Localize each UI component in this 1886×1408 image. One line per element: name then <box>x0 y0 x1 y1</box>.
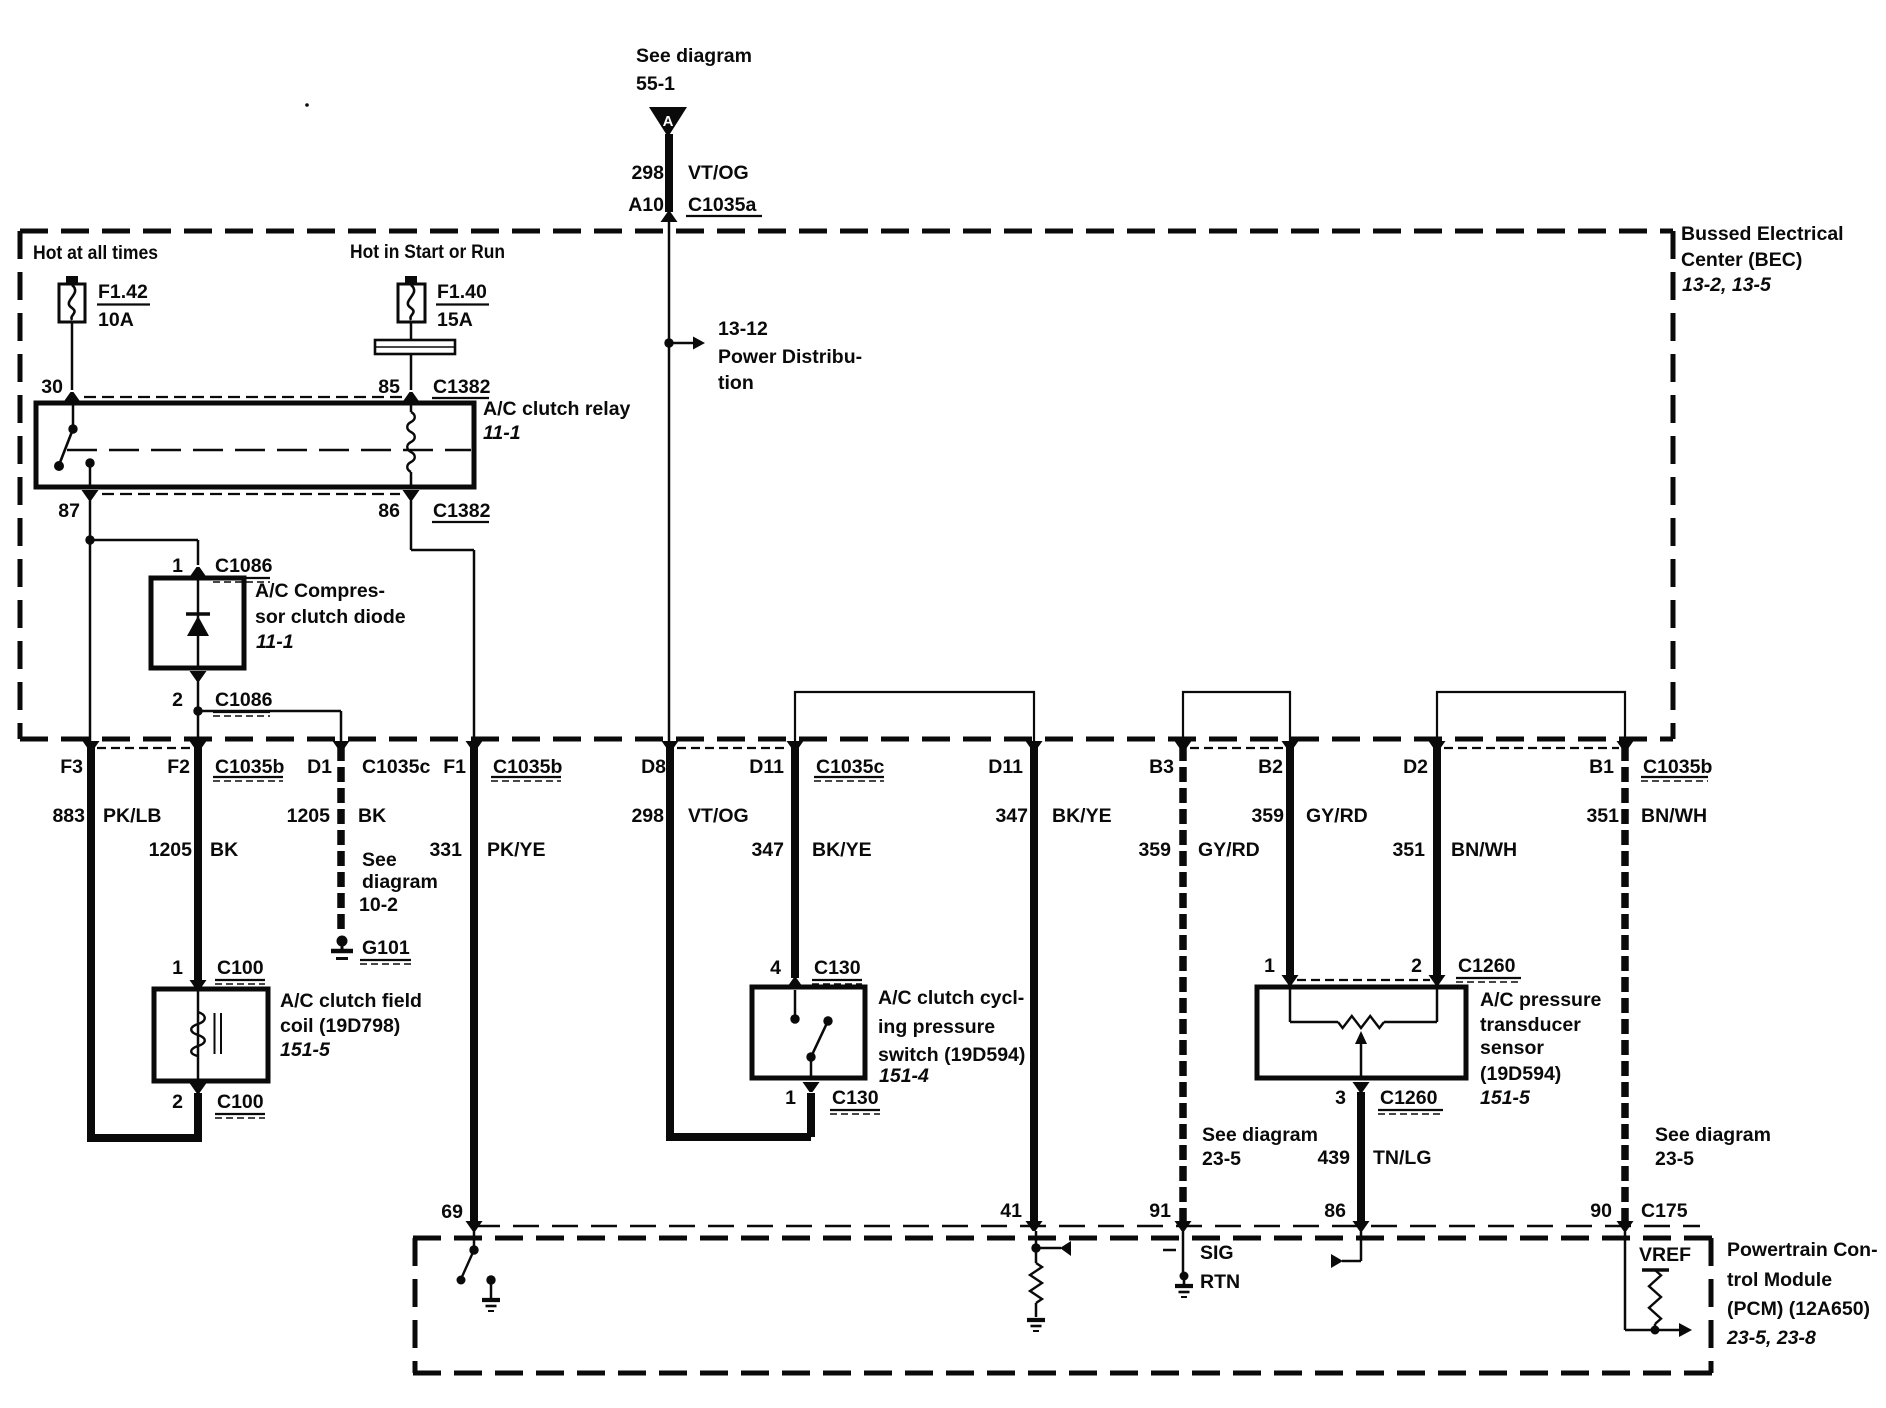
svg-text:10-2: 10-2 <box>359 894 398 916</box>
connector line C175 (thin dashed) <box>474 1225 1700 1227</box>
transducer wiper arrow <box>1360 1044 1363 1078</box>
svg-text:Powertrain Con-: Powertrain Con- <box>1727 1239 1878 1261</box>
svg-text:85: 85 <box>378 376 400 398</box>
Powertrain Control Module dashed box <box>413 1236 1712 1241</box>
relay internal divider (dashed) <box>67 449 471 451</box>
svg-text:439: 439 <box>1317 1147 1350 1169</box>
svg-text:F1: F1 <box>443 756 466 778</box>
svg-text:1: 1 <box>172 555 183 577</box>
print speck <box>305 103 309 107</box>
svg-text:Hot in Start or Run: Hot in Start or Run <box>350 241 505 263</box>
bus bar symbol <box>375 340 455 354</box>
wire pin3 439 TN/LG (thick) to PCM 86 <box>1357 1092 1365 1222</box>
svg-text:BK/YE: BK/YE <box>812 839 872 861</box>
fuse F1.42 10A <box>66 276 78 284</box>
svg-text:trol Module: trol Module <box>1727 1269 1832 1291</box>
connector line D8-D11 <box>677 747 789 749</box>
diode symbol <box>197 578 200 668</box>
svg-text:F1.40: F1.40 <box>437 281 487 303</box>
wire F3 883 PK/LB (thick) <box>87 746 95 1138</box>
svg-text:351: 351 <box>1392 839 1425 861</box>
transducer pin 3 connector <box>1353 1082 1370 1092</box>
switch contact pin4 <box>794 990 797 1015</box>
svg-text:15A: 15A <box>437 309 473 331</box>
PCM pin arrows <box>466 1221 483 1231</box>
relay switch arm <box>59 429 73 465</box>
wire D2 351 BN/WH (thick) <box>1433 746 1441 976</box>
svg-text:87: 87 <box>58 500 80 522</box>
PCM pull resistor at 41 <box>1035 1248 1038 1263</box>
wire coil pin2 down (thick) <box>194 1093 202 1142</box>
svg-text:4: 4 <box>770 957 781 979</box>
ground G101 <box>337 936 348 947</box>
svg-text:2: 2 <box>172 1091 183 1113</box>
svg-text:C1035c: C1035c <box>816 756 884 778</box>
svg-text:13-12: 13-12 <box>718 318 768 340</box>
svg-text:C130: C130 <box>814 957 861 979</box>
wire F2 1205 BK (thick) <box>194 746 202 981</box>
svg-text:diagram: diagram <box>362 871 438 893</box>
svg-text:See diagram: See diagram <box>636 45 752 67</box>
BEC pin exit arrows <box>83 741 100 751</box>
loop B3-B2 <box>1183 692 1290 742</box>
svg-text:1: 1 <box>1264 955 1275 977</box>
switch pin 1 connector <box>803 1082 820 1092</box>
svg-text:GY/RD: GY/RD <box>1198 839 1260 861</box>
relay coil <box>410 403 413 412</box>
svg-text:C100: C100 <box>217 1091 264 1113</box>
switch pin 4 connector <box>787 978 804 988</box>
svg-text:A/C clutch field: A/C clutch field <box>280 990 422 1012</box>
junction node diode branch <box>85 535 94 544</box>
coil pin 2 connector <box>190 1083 207 1093</box>
svg-text:C1382: C1382 <box>433 376 491 398</box>
svg-text:69: 69 <box>441 1201 463 1223</box>
svg-text:A10: A10 <box>628 194 664 216</box>
svg-text:BK: BK <box>358 805 386 827</box>
svg-text:sensor: sensor <box>1480 1037 1544 1059</box>
relay pin 86 exit <box>403 490 420 500</box>
svg-text:C175: C175 <box>1641 1200 1688 1222</box>
A/C compressor clutch diode box <box>151 578 244 668</box>
svg-text:C100: C100 <box>217 957 264 979</box>
svg-text:11-1: 11-1 <box>483 422 521 444</box>
wire diode pin2 to junction <box>197 681 200 742</box>
transducer potentiometer <box>1289 987 1292 1022</box>
svg-text:See diagram: See diagram <box>1655 1124 1771 1146</box>
PCM pin 86 internal input <box>1360 1231 1363 1261</box>
svg-text:2: 2 <box>1411 955 1422 977</box>
wire D8 298 VT/OG (thick) <box>666 746 674 1137</box>
svg-text:C1035b: C1035b <box>1643 756 1712 778</box>
svg-text:151-5: 151-5 <box>1480 1087 1531 1109</box>
svg-text:Bussed Electrical: Bussed Electrical <box>1681 223 1844 245</box>
svg-text:D11: D11 <box>988 756 1023 778</box>
svg-text:91: 91 <box>1149 1200 1171 1222</box>
svg-text:BK: BK <box>210 839 238 861</box>
svg-text:55-1: 55-1 <box>636 73 675 95</box>
svg-text:D2: D2 <box>1403 756 1428 778</box>
wire bus bar to relay pin 85 <box>410 354 413 390</box>
svg-text:331: 331 <box>429 839 462 861</box>
svg-text:coil (19D798): coil (19D798) <box>280 1015 400 1037</box>
svg-text:TN/LG: TN/LG <box>1373 1147 1432 1169</box>
off-page connector triangle A <box>649 107 687 137</box>
svg-text:(19D594): (19D594) <box>1480 1063 1561 1085</box>
svg-text:Center (BEC): Center (BEC) <box>1681 249 1802 271</box>
switch contact to pin 1 <box>810 1057 813 1078</box>
svg-text:C1260: C1260 <box>1380 1087 1438 1109</box>
svg-text:11-1: 11-1 <box>256 631 294 653</box>
svg-text:PK/LB: PK/LB <box>103 805 162 827</box>
wire 298 inside BEC (thin) <box>668 221 671 742</box>
svg-text:86: 86 <box>378 500 400 522</box>
svg-text:298: 298 <box>631 162 664 184</box>
relay connector dashed line (bottom) <box>102 493 400 495</box>
svg-text:C1086: C1086 <box>215 689 273 711</box>
A/C clutch relay box <box>36 403 474 487</box>
svg-text:C130: C130 <box>832 1087 879 1109</box>
svg-text:D8: D8 <box>641 756 666 778</box>
wire from relay 87 down <box>89 500 92 742</box>
svg-text:23-5: 23-5 <box>1202 1148 1241 1170</box>
svg-text:B3: B3 <box>1149 756 1174 778</box>
svg-text:See diagram: See diagram <box>1202 1124 1318 1146</box>
svg-text:A/C clutch relay: A/C clutch relay <box>483 398 631 420</box>
svg-text:41: 41 <box>1000 1200 1022 1222</box>
PCM pin 41 internal input <box>1035 1231 1038 1248</box>
svg-text:F3: F3 <box>60 756 83 778</box>
wire B2 359 GY/RD (thick) <box>1286 746 1294 976</box>
svg-text:A: A <box>663 113 674 130</box>
loop D11-D11 <box>795 692 1034 742</box>
svg-text:transducer: transducer <box>1480 1014 1581 1036</box>
svg-text:C1035c: C1035c <box>362 756 430 778</box>
PCM internal ground contact at 69 <box>486 1275 495 1284</box>
svg-text:347: 347 <box>751 839 784 861</box>
svg-text:10A: 10A <box>98 309 134 331</box>
svg-text:ing pressure: ing pressure <box>878 1016 995 1038</box>
wire B3 359 GY/RD (thick dashed) to PCM 91 <box>1179 746 1187 1222</box>
svg-text:C1035b: C1035b <box>493 756 562 778</box>
switch movable arm <box>806 1052 815 1061</box>
PCM pin 90 wire to VREF node <box>1624 1231 1627 1330</box>
relay switch contact 30 <box>72 403 75 429</box>
svg-text:See: See <box>362 849 397 871</box>
svg-text:1: 1 <box>785 1087 796 1109</box>
connector arrow into C1035a (up) <box>661 212 678 222</box>
diode pin 2 exit <box>190 671 207 681</box>
svg-text:switch (19D594): switch (19D594) <box>878 1044 1025 1066</box>
svg-text:3: 3 <box>1335 1087 1346 1109</box>
connector line D2-B1 <box>1444 747 1619 749</box>
svg-text:A/C pressure: A/C pressure <box>1480 989 1602 1011</box>
svg-text:VREF: VREF <box>1639 1244 1691 1266</box>
svg-text:C1260: C1260 <box>1458 955 1516 977</box>
svg-text:RTN: RTN <box>1200 1271 1240 1293</box>
svg-text:C1382: C1382 <box>433 500 491 522</box>
svg-text:BN/WH: BN/WH <box>1641 805 1707 827</box>
fuse F1.40 15A <box>405 276 417 284</box>
svg-text:90: 90 <box>1590 1200 1612 1222</box>
wire F1 331 PK/YE (thick) to PCM <box>470 746 478 1222</box>
svg-text:BK/YE: BK/YE <box>1052 805 1112 827</box>
svg-text:BN/WH: BN/WH <box>1451 839 1517 861</box>
wire D11 347 BK/YE (thick) to PCM 41 <box>1030 746 1038 1222</box>
coil pin 1 connector <box>190 980 207 990</box>
svg-text:86: 86 <box>1324 1200 1346 1222</box>
relay connector dashed line (top) <box>84 396 404 398</box>
PCM pin 91 SIG RTN ground <box>1163 1249 1176 1252</box>
svg-text:883: 883 <box>52 805 85 827</box>
svg-text:Hot at all times: Hot at all times <box>33 242 158 264</box>
relay pin 87 exit <box>82 490 99 500</box>
A/C clutch field coil box <box>154 989 268 1081</box>
svg-text:A/C Compres-: A/C Compres- <box>255 580 385 602</box>
svg-text:(PCM) (12A650): (PCM) (12A650) <box>1727 1298 1870 1320</box>
svg-text:VT/OG: VT/OG <box>688 805 749 827</box>
svg-text:GY/RD: GY/RD <box>1306 805 1368 827</box>
svg-text:SIG: SIG <box>1200 1242 1234 1264</box>
svg-text:1: 1 <box>172 957 183 979</box>
wire 298 VT/OG from triangle A (thick) <box>665 134 673 212</box>
wire junction to D1 <box>198 710 341 713</box>
svg-text:151-4: 151-4 <box>879 1065 929 1087</box>
Bussed Electrical Center (BEC) dashed box <box>20 229 1673 234</box>
wire D11 347 BK/YE (thick) to switch <box>791 746 799 978</box>
svg-text:F1.42: F1.42 <box>98 281 148 303</box>
svg-text:351: 351 <box>1586 805 1619 827</box>
relay switch contact 87 <box>85 458 94 467</box>
svg-text:G101: G101 <box>362 937 410 959</box>
svg-text:A/C clutch cycl-: A/C clutch cycl- <box>878 987 1024 1009</box>
svg-text:VT/OG: VT/OG <box>688 162 749 184</box>
wire fuse F1.42 to relay pin 30 <box>71 322 74 390</box>
wire fuse F1.40 down <box>410 322 413 339</box>
svg-text:23-5, 23-8: 23-5, 23-8 <box>1726 1327 1816 1349</box>
svg-text:23-5: 23-5 <box>1655 1148 1694 1170</box>
svg-text:D1: D1 <box>307 756 332 778</box>
PCM ground at 41 <box>1027 1318 1045 1322</box>
svg-text:151-5: 151-5 <box>280 1039 331 1061</box>
svg-text:sor clutch diode: sor clutch diode <box>255 606 406 628</box>
svg-text:tion: tion <box>718 372 754 394</box>
svg-text:359: 359 <box>1251 805 1284 827</box>
connector line F3-F2 <box>97 747 192 749</box>
field coil winding <box>197 989 200 1081</box>
svg-text:C1035b: C1035b <box>215 756 284 778</box>
wire relay 86 to pin F1 <box>410 500 413 550</box>
svg-text:2: 2 <box>172 689 183 711</box>
A/C clutch cycling pressure switch box <box>752 987 865 1078</box>
svg-text:347: 347 <box>995 805 1028 827</box>
svg-text:B2: B2 <box>1258 756 1283 778</box>
connector line C1260 <box>1297 979 1430 981</box>
connector line B3-B2 <box>1190 747 1284 749</box>
svg-text:D11: D11 <box>749 756 784 778</box>
loop D2-B1 <box>1437 692 1625 742</box>
PCM pin 69 internal switch <box>473 1231 476 1250</box>
svg-text:C1086: C1086 <box>215 555 273 577</box>
svg-text:PK/YE: PK/YE <box>487 839 546 861</box>
junction node to power distribution <box>664 338 673 347</box>
svg-text:359: 359 <box>1138 839 1171 861</box>
svg-text:F2: F2 <box>167 756 190 778</box>
svg-text:30: 30 <box>41 376 63 398</box>
svg-text:Power Distribu-: Power Distribu- <box>718 346 862 368</box>
wire B1 351 BN/WH (thick dashed) to PCM 90 <box>1621 746 1629 1222</box>
svg-text:1205: 1205 <box>287 805 331 827</box>
A/C pressure transducer sensor box <box>1257 987 1466 1078</box>
svg-text:C1035a: C1035a <box>688 194 756 216</box>
svg-text:B1: B1 <box>1589 756 1614 778</box>
wire junction to diode pin 1 <box>90 539 198 542</box>
svg-text:13-2, 13-5: 13-2, 13-5 <box>1682 274 1772 296</box>
svg-text:1205: 1205 <box>149 839 193 861</box>
svg-text:298: 298 <box>631 805 664 827</box>
wire D1 1205 BK (thick dashed) to ground <box>337 746 345 930</box>
